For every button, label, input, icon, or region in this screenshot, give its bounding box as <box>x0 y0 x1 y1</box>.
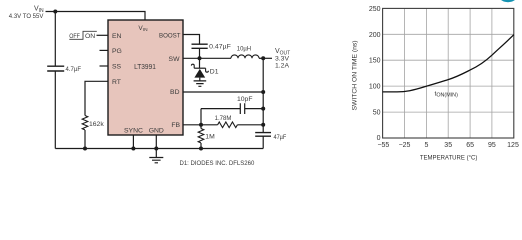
svg-text:GND: GND <box>149 128 164 135</box>
svg-text:35: 35 <box>444 142 452 149</box>
svg-text:5: 5 <box>424 142 428 149</box>
svg-text:162k: 162k <box>89 121 104 128</box>
svg-text:SS: SS <box>112 64 122 71</box>
svg-text:1.2A: 1.2A <box>275 63 289 70</box>
svg-text:RT: RT <box>112 79 121 86</box>
svg-text:BOOST: BOOST <box>159 32 181 39</box>
svg-text:EN: EN <box>112 33 122 40</box>
svg-text:250: 250 <box>369 6 381 13</box>
svg-text:200: 200 <box>369 32 381 39</box>
svg-text:47µF: 47µF <box>274 134 287 141</box>
svg-text:LT3991: LT3991 <box>134 62 156 71</box>
svg-text:ON: ON <box>85 33 95 40</box>
svg-text:D1: DIODES INC. DFLS260: D1: DIODES INC. DFLS260 <box>180 160 255 167</box>
svg-text:SWITCH ON TIME (ns): SWITCH ON TIME (ns) <box>352 41 359 111</box>
svg-text:100: 100 <box>369 84 381 91</box>
svg-text:150: 150 <box>369 58 381 65</box>
svg-text:tON(MIN): tON(MIN) <box>435 90 459 98</box>
svg-text:10µH: 10µH <box>237 45 251 52</box>
svg-text:SYNC: SYNC <box>124 128 143 135</box>
svg-text:95: 95 <box>488 142 496 149</box>
svg-text:3.3V: 3.3V <box>275 56 289 63</box>
svg-text:4.7µF: 4.7µF <box>66 66 82 73</box>
svg-text:FB: FB <box>171 122 180 129</box>
svg-text:−25: −25 <box>399 142 411 149</box>
svg-text:−55: −55 <box>377 142 389 149</box>
svg-text:1M: 1M <box>205 134 215 141</box>
svg-text:SW: SW <box>169 56 181 63</box>
svg-text:PG: PG <box>112 48 122 55</box>
svg-text:0.47µF: 0.47µF <box>209 43 231 50</box>
svg-text:10pF: 10pF <box>237 96 253 103</box>
svg-text:BD: BD <box>170 89 180 96</box>
svg-text:OFF: OFF <box>69 33 80 40</box>
svg-text:65: 65 <box>466 142 474 149</box>
svg-text:4.3V TO 55V: 4.3V TO 55V <box>9 13 44 20</box>
svg-text:TEMPERATURE (°C): TEMPERATURE (°C) <box>420 154 478 162</box>
svg-text:D1: D1 <box>210 69 219 76</box>
svg-text:1.78M: 1.78M <box>215 115 232 122</box>
svg-text:125: 125 <box>507 142 519 149</box>
svg-text:50: 50 <box>373 110 381 117</box>
